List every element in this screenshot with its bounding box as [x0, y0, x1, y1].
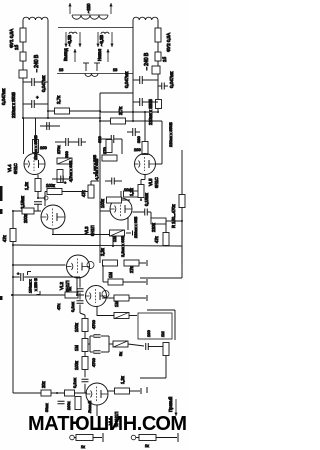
svg-text:0,1мк: 0,1мк — [72, 378, 77, 388]
svg-text:0,047мк: 0,047мк — [169, 72, 174, 88]
svg-text:2,7к: 2,7к — [56, 96, 61, 104]
svg-text:0,047мк: 0,047мк — [41, 76, 46, 92]
svg-text:1 мк х 63Б: 1 мк х 63Б — [92, 154, 97, 174]
svg-text:VL2: VL2 — [59, 281, 64, 290]
svg-text:100к: 100к — [74, 323, 79, 332]
svg-text:1б: 1б — [162, 56, 167, 62]
svg-text:0,1мк: 0,1мк — [70, 302, 75, 312]
svg-text:100к: 100к — [74, 361, 79, 370]
svg-text:47к: 47к — [2, 235, 7, 242]
svg-text:Накал: Накал — [97, 48, 102, 61]
svg-text:ФУ2 0,5А: ФУ2 0,5А — [166, 33, 171, 52]
svg-text:27к: 27к — [129, 266, 134, 273]
svg-text:220мк х 350Б: 220мк х 350Б — [33, 135, 38, 160]
svg-text:200к: 200к — [23, 214, 28, 223]
svg-text:VL5: VL5 — [148, 178, 153, 186]
svg-text:13: 13 — [59, 68, 63, 72]
svg-text:270к: 270к — [56, 145, 61, 154]
svg-text:+: + — [17, 271, 20, 276]
svg-text:1,2к: 1,2к — [24, 182, 29, 190]
svg-text:R 150...470к: R 150...470к — [171, 204, 176, 228]
svg-text:1М: 1М — [112, 236, 117, 242]
svg-text:20к: 20к — [41, 381, 46, 388]
svg-text:0,15мк: 0,15мк — [20, 196, 25, 209]
svg-text:100к: 100к — [100, 199, 105, 208]
svg-text:+: + — [36, 95, 39, 100]
svg-text:100к: 100к — [46, 183, 55, 188]
svg-text:220мк х 350Б: 220мк х 350Б — [168, 122, 173, 147]
svg-text:6Н1С: 6Н1С — [13, 163, 18, 174]
svg-text:1к: 1к — [81, 445, 85, 449]
svg-text:13: 13 — [113, 68, 117, 72]
svg-text:2,2к: 2,2к — [100, 248, 105, 256]
svg-text:VL4: VL4 — [7, 164, 12, 172]
svg-text:47к: 47к — [154, 236, 159, 243]
svg-text:~6,3В: ~6,3В — [67, 35, 72, 46]
svg-text:100: 100 — [134, 147, 141, 152]
svg-text:1М: 1М — [108, 272, 113, 278]
svg-text:2,7к: 2,7к — [118, 107, 123, 115]
svg-text:220мк х 63Б: 220мк х 63Б — [134, 216, 138, 238]
svg-text:1б: 1б — [14, 44, 19, 50]
svg-text:330: 330 — [136, 136, 141, 143]
svg-text:~6,3В: ~6,3В — [99, 35, 104, 46]
svg-text:1,2к: 1,2к — [120, 376, 125, 384]
svg-text:1,2к: 1,2к — [129, 188, 134, 196]
svg-text:630: 630 — [97, 136, 102, 143]
svg-text:100к: 100к — [66, 401, 71, 410]
svg-text:1М: 1М — [160, 331, 165, 337]
svg-text:100мк х: 100мк х — [29, 279, 33, 293]
svg-text:Правый: Правый — [168, 396, 173, 412]
svg-text:+: + — [64, 180, 67, 185]
svg-text:0,15мк: 0,15мк — [144, 193, 149, 206]
svg-text:0,047мк: 0,047мк — [124, 72, 129, 88]
svg-text:270: 270 — [102, 147, 107, 154]
svg-text:1М: 1М — [74, 345, 79, 351]
svg-text:Выход: Выход — [63, 48, 68, 61]
svg-text:– 240 В: – 240 В — [144, 52, 150, 70]
svg-text:– 240 В: – 240 В — [34, 54, 40, 72]
svg-text:220к: 220к — [151, 223, 156, 232]
svg-text:2,2мк х 63Б: 2,2мк х 63Б — [120, 235, 125, 257]
svg-text:47к: 47к — [56, 304, 61, 310]
svg-text:х 250 Б: х 250 Б — [34, 278, 38, 291]
svg-text:VL3: VL3 — [84, 226, 89, 234]
svg-text:100: 100 — [146, 330, 151, 337]
svg-text:47к: 47к — [81, 190, 86, 197]
svg-text:0,047мк: 0,047мк — [1, 89, 6, 105]
svg-text:5к: 5к — [118, 352, 123, 356]
svg-text:630: 630 — [64, 151, 69, 158]
svg-text:1М: 1М — [114, 301, 119, 307]
svg-text:2к: 2к — [67, 287, 72, 291]
svg-text:30мк: 30мк — [45, 403, 49, 412]
svg-text:4700: 4700 — [91, 357, 96, 367]
svg-text:220мк х 350Б: 220мк х 350Б — [11, 92, 16, 118]
svg-text:4700: 4700 — [91, 319, 96, 329]
svg-text:6Н1С: 6Н1С — [154, 177, 159, 188]
svg-text:~220: ~220 — [86, 3, 91, 13]
svg-text:1к: 1к — [145, 444, 149, 448]
svg-text:100: 100 — [40, 145, 47, 150]
svg-text:Левый: Левый — [87, 401, 92, 413]
